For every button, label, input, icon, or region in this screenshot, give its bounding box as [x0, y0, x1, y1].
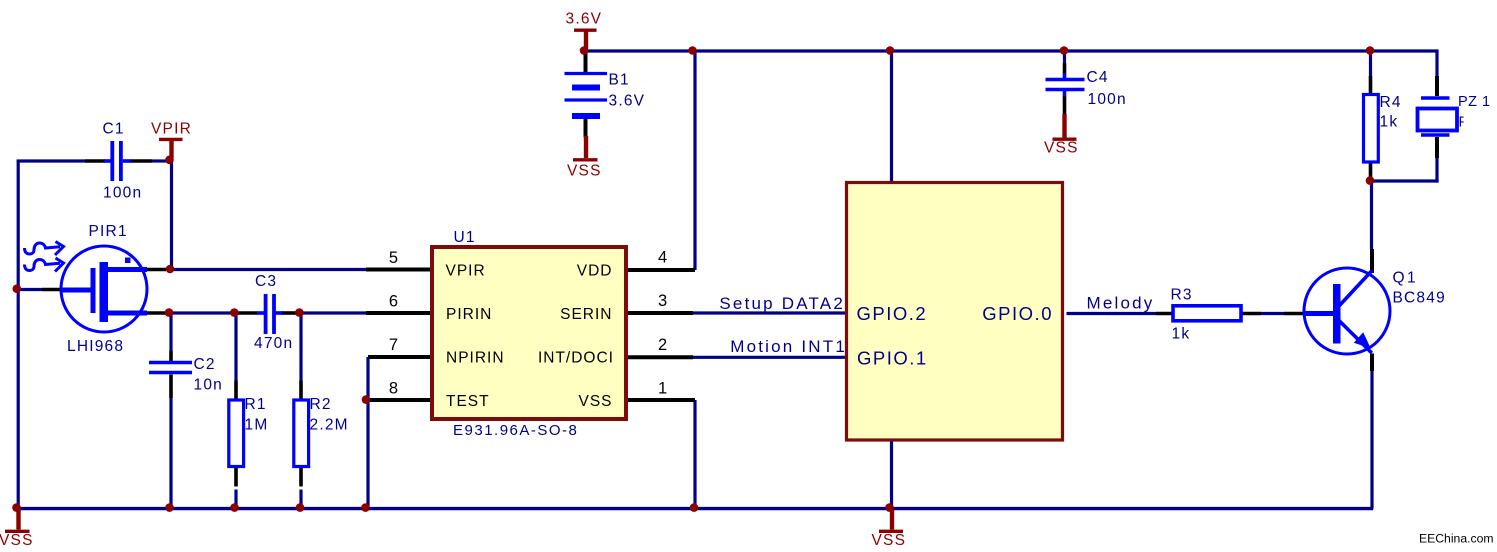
svg-text:INT/DOCI: INT/DOCI — [538, 349, 614, 366]
pin stub R3 right black — [1242, 312, 1262, 316]
resistor R3 — [1173, 306, 1241, 321]
junction ground C2 — [165, 503, 174, 512]
wire C3 right to pin6 — [300, 311, 368, 314]
svg-text:10n: 10n — [194, 377, 223, 394]
wire SERIN to GPIO.2 — [693, 311, 846, 314]
junction top rail GPIO — [886, 46, 895, 55]
svg-text:PZ 1: PZ 1 — [1458, 94, 1491, 110]
svg-text:7: 7 — [389, 336, 398, 354]
svg-text:SERIN: SERIN — [560, 306, 612, 323]
pin stub PIR1 gate black — [42, 288, 62, 292]
wire VSS pin1 vertical — [693, 400, 696, 509]
svg-text:R4: R4 — [1380, 94, 1402, 111]
pin stub C2 top black — [169, 351, 173, 362]
wire C2 column lower — [169, 398, 172, 509]
svg-text:BC849: BC849 — [1393, 290, 1446, 307]
svg-text:C2: C2 — [194, 356, 216, 373]
svg-text:4: 4 — [658, 249, 667, 267]
piezo PZ1 — [1418, 98, 1458, 135]
power symbol VPIR — [159, 139, 183, 158]
wire R4 top — [1369, 51, 1372, 76]
svg-text:GPIO.2: GPIO.2 — [857, 303, 928, 324]
wire source node to R1 node — [169, 311, 234, 314]
svg-text:VSS: VSS — [567, 162, 602, 179]
svg-text:GPIO.0: GPIO.0 — [982, 303, 1053, 324]
pin stub Q1 emitter black — [1370, 354, 1374, 372]
wire C1 right segment to VPIR node — [152, 159, 167, 162]
junction pin8 node — [362, 395, 371, 404]
power symbol 3.6V — [574, 30, 597, 49]
wire top power rail VDD net — [583, 49, 1439, 52]
wire R1 column lower — [234, 490, 237, 507]
svg-text:8: 8 — [389, 379, 398, 397]
junction ground left — [12, 503, 21, 512]
pin stub R4 top black — [1369, 76, 1373, 95]
pin stub C1 left black — [85, 159, 105, 163]
junction drain node — [166, 265, 175, 274]
svg-text:C1: C1 — [103, 121, 125, 138]
junction top rail pin4 — [688, 46, 697, 55]
svg-text:2.2M: 2.2M — [310, 417, 349, 434]
wire C1 left segment — [17, 159, 85, 162]
wire Melody GPIO.0 to R3 — [1067, 312, 1157, 315]
PIR wave arrow lower — [25, 258, 64, 272]
svg-text:6: 6 — [389, 293, 398, 311]
svg-text:1k: 1k — [1172, 326, 1191, 343]
pin stub PIR1 source black — [146, 311, 166, 315]
pin stub PZ1 top black — [1435, 76, 1439, 96]
pin stub C4 bottom black — [1063, 96, 1067, 115]
pin stub C2 bottom black — [169, 375, 173, 399]
battery B1 — [565, 74, 608, 117]
wire VDD pin4 vertical — [693, 51, 696, 270]
pin stub U1 pin5 — [366, 268, 430, 272]
svg-text:1M: 1M — [245, 417, 269, 434]
svg-text:GPIO.1: GPIO.1 — [857, 347, 928, 368]
junction top rail C4 — [1060, 46, 1069, 55]
svg-text:E931.96A-SO-8: E931.96A-SO-8 — [453, 422, 578, 439]
pin stub battery top black — [584, 51, 588, 73]
svg-text:VSS: VSS — [578, 393, 612, 410]
svg-text:100n: 100n — [1088, 91, 1127, 108]
pin stub U1 pin4 — [628, 268, 695, 272]
wire INT/DOCI to GPIO.1 — [693, 356, 846, 359]
svg-text:1k: 1k — [1380, 114, 1399, 131]
pin stub R2 top black — [299, 381, 303, 401]
pin stub R1 bottom black — [234, 468, 238, 487]
pin stub C1 right black — [130, 159, 152, 163]
pin stub U1 pin7 — [368, 355, 430, 359]
junction ground GPIO — [885, 503, 894, 512]
resistor R4 — [1364, 95, 1379, 163]
svg-text:VSS: VSS — [872, 532, 907, 549]
svg-text:LHI968: LHI968 — [67, 338, 124, 355]
wire PZ1 top vertical — [1435, 50, 1438, 77]
wire C2 column upper — [169, 313, 172, 351]
pin stub R3 left black — [1156, 312, 1173, 316]
wire R2 column lower — [299, 490, 302, 507]
junction gate node — [12, 284, 21, 293]
pin stub U1 pin2 — [628, 355, 693, 359]
junction R2 top node — [295, 308, 304, 317]
svg-text:VSS: VSS — [0, 532, 34, 549]
pin stub R2 bottom black — [299, 468, 303, 487]
ground symbol VSS left — [5, 509, 30, 532]
junction R1 top node — [230, 308, 239, 317]
svg-text:5: 5 — [389, 249, 398, 267]
capacitor C3 — [257, 294, 283, 334]
wire GPIO block top vertical — [890, 51, 893, 182]
svg-text:470n: 470n — [254, 335, 293, 352]
svg-text:3: 3 — [658, 292, 667, 310]
junction ground pin1 — [690, 503, 699, 512]
wire left vertical from C1 to ground — [17, 160, 20, 509]
svg-text:B1: B1 — [609, 72, 630, 89]
wire drain to pin5 — [170, 268, 368, 271]
pin stub Q1 base black — [1284, 312, 1305, 316]
wire R4 PZ1 bottom link — [1369, 179, 1439, 182]
svg-text:3.6V: 3.6V — [566, 11, 603, 28]
wire gate from left rail — [17, 288, 42, 291]
junction ground R1 — [230, 503, 239, 512]
pin stub R4 bottom black — [1369, 162, 1373, 178]
junction top rail R4 — [1366, 46, 1375, 55]
svg-text:Setup DATA2: Setup DATA2 — [719, 294, 845, 313]
junction ground NPIRIN — [361, 503, 370, 512]
pin stub U1 pin1 — [628, 398, 695, 402]
wire Q1 collector vertical — [1370, 181, 1373, 249]
ground symbol VSS GPIO — [879, 509, 903, 532]
svg-text:VPIR: VPIR — [446, 262, 486, 279]
svg-text:2: 2 — [658, 336, 667, 354]
capacitor C1 — [104, 141, 131, 181]
pin stub PZ1 bottom black — [1435, 137, 1439, 158]
svg-text:Melody: Melody — [1087, 294, 1155, 313]
svg-text:VPIR: VPIR — [151, 121, 192, 138]
svg-text:100n: 100n — [103, 185, 142, 202]
svg-text:TEST: TEST — [446, 393, 490, 410]
pin stub U1 pin8 — [368, 398, 430, 402]
pin stub U1 pin6 — [366, 311, 430, 315]
ground symbol VSS battery — [573, 136, 598, 160]
svg-text:Q1: Q1 — [1393, 270, 1419, 287]
wire C4 top — [1063, 51, 1066, 63]
junction source node — [165, 308, 174, 317]
svg-text:PIR1: PIR1 — [89, 223, 128, 240]
svg-text:VSS: VSS — [1044, 140, 1079, 157]
svg-text:3.6V: 3.6V — [609, 93, 646, 110]
wire NPIRIN vertical to ground — [366, 357, 369, 509]
wire R2 column upper — [299, 313, 302, 381]
svg-text:1: 1 — [658, 379, 667, 397]
pin stub C3 right black — [281, 311, 297, 315]
pin stub PIR1 drain black — [146, 268, 166, 272]
svg-text:C3: C3 — [255, 273, 277, 290]
resistor R1 — [229, 400, 244, 467]
junction VPIR node — [165, 156, 174, 165]
svg-text:NPIRIN: NPIRIN — [446, 349, 505, 366]
transistor Q1 — [1304, 268, 1390, 354]
wire Q1 emitter vertical to ground — [1370, 371, 1373, 509]
svg-text:R3: R3 — [1171, 287, 1193, 304]
svg-text:C4: C4 — [1087, 69, 1109, 86]
wire GPIO block bottom vertical — [890, 440, 893, 509]
junction R4 bottom node — [1366, 176, 1375, 185]
wire R3 to Q1 base link — [1261, 312, 1284, 315]
capacitor C2 — [149, 363, 192, 373]
capacitor C4 — [1046, 73, 1085, 97]
svg-text:R1: R1 — [245, 396, 267, 413]
pin stub C3 left black — [238, 311, 258, 315]
wire PZ1 bottom vertical — [1435, 158, 1438, 183]
svg-text:Motion INT1: Motion INT1 — [730, 337, 847, 356]
svg-text:EEChina.com: EEChina.com — [1419, 532, 1494, 546]
IC U1 body E931.96A-SO-8 — [432, 247, 626, 419]
junction ground R2 — [296, 503, 305, 512]
svg-text:U1: U1 — [454, 229, 476, 246]
pin stub battery bottom black — [584, 119, 588, 138]
wire R1 column upper — [234, 313, 237, 381]
wire VPIR vertical — [170, 160, 173, 269]
resistor R2 — [294, 400, 309, 467]
PIR sensor PIR1 — [61, 246, 147, 332]
wire ground rail VSS net — [17, 507, 1373, 510]
PIR wave arrow upper — [25, 242, 64, 256]
pin stub C4 top black — [1063, 63, 1067, 74]
pin stub Q1 collector black — [1370, 249, 1374, 273]
IC GPIO block body — [847, 183, 1063, 441]
svg-text:PIRIN: PIRIN — [446, 306, 492, 323]
pin stub U1 pin3 — [628, 311, 693, 315]
pin stub R1 top black — [234, 381, 238, 401]
svg-text:VDD: VDD — [577, 262, 613, 279]
svg-text:R2: R2 — [310, 396, 332, 413]
ground symbol VSS C4 — [1053, 114, 1077, 139]
junction top rail battery — [580, 46, 589, 55]
